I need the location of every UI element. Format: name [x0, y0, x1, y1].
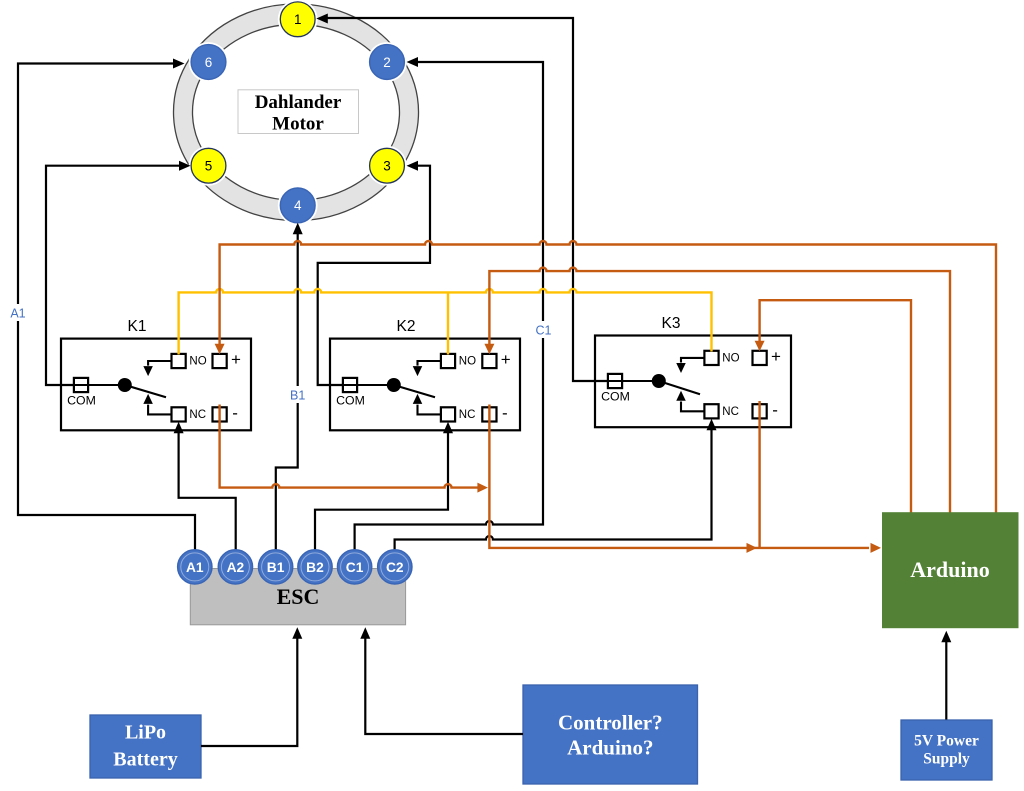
svg-text:B2: B2 — [306, 560, 324, 575]
svg-text:NC: NC — [459, 409, 476, 421]
svg-text:3: 3 — [383, 159, 391, 174]
svg-text:NO: NO — [722, 353, 739, 365]
relay K3 NC terminal — [704, 404, 739, 418]
relay K3 common pole and switch arm — [607, 374, 700, 394]
svg-text:C1: C1 — [346, 560, 364, 575]
ESC terminal A1 — [178, 550, 212, 584]
LiPo Battery box — [90, 715, 201, 778]
Dahlander motor stator ring — [174, 4, 419, 221]
relay K2 NO terminal — [441, 354, 476, 368]
svg-text:-: - — [502, 404, 508, 423]
wire: motor terminal 5 to K1 COM — [46, 161, 191, 385]
svg-text:5V Power: 5V Power — [914, 733, 979, 750]
motor terminal 3 — [367, 146, 407, 186]
relay K1 NC hook arrow — [143, 394, 171, 415]
relay K1 NO hook arrow — [143, 361, 171, 376]
motor terminal 2 — [367, 42, 407, 82]
relay K2 + terminal — [482, 350, 511, 369]
relay K3 + terminal — [753, 347, 782, 366]
svg-text:Controller?: Controller? — [558, 711, 663, 735]
relay K1 - terminal — [213, 404, 238, 423]
ESC terminal B2 — [298, 550, 332, 584]
relay K3 NO terminal — [704, 351, 739, 365]
relay K2 NC terminal — [441, 407, 476, 421]
svg-text:-: - — [772, 401, 778, 420]
relay K2 box — [330, 318, 520, 430]
svg-text:A1: A1 — [186, 560, 204, 575]
orange wire: Arduino to K3 + — [755, 300, 911, 512]
wire: motor terminal 6 to ESC A1 — [18, 59, 195, 551]
svg-text:A1: A1 — [10, 307, 25, 321]
svg-text:6: 6 — [205, 55, 213, 70]
svg-text:Motor: Motor — [272, 113, 324, 134]
svg-text:K2: K2 — [397, 318, 416, 335]
relay K1 COM terminal — [67, 378, 96, 408]
svg-text:NC: NC — [722, 406, 739, 418]
svg-text:5: 5 — [205, 159, 213, 174]
ESC terminal C1 — [337, 550, 371, 584]
Controller box — [523, 685, 698, 784]
wire: 5V Power Supply to Arduino — [941, 631, 951, 720]
label A1 — [6, 304, 29, 321]
svg-text:Battery: Battery — [113, 749, 177, 771]
relay K1 NO terminal — [172, 354, 207, 368]
relay K3 NO hook arrow — [676, 358, 704, 373]
svg-text:4: 4 — [294, 198, 302, 213]
svg-text:COM: COM — [67, 393, 96, 407]
relay K2 NO hook arrow — [413, 361, 441, 376]
orange wire: Arduino to K2 + — [484, 268, 950, 513]
wire: ESC B2 to K2 NC — [315, 422, 453, 551]
relay K3 - terminal — [753, 401, 778, 420]
motor terminal 6 — [189, 42, 229, 82]
wire: K1 NC to ESC A2 — [174, 422, 236, 551]
svg-text:+: + — [231, 350, 241, 369]
ESC box — [190, 569, 405, 625]
svg-text:-: - — [232, 404, 238, 423]
svg-text:2: 2 — [383, 55, 391, 70]
svg-text:NO: NO — [459, 356, 476, 368]
svg-text:+: + — [771, 347, 781, 366]
relay K2 common pole and switch arm — [342, 378, 435, 397]
motor terminal 4 — [278, 186, 318, 226]
svg-text:NO: NO — [189, 356, 206, 368]
Arduino box — [882, 512, 1019, 628]
relay K2 COM terminal — [336, 378, 365, 408]
svg-text:B1: B1 — [267, 560, 285, 575]
svg-text:Dahlander: Dahlander — [255, 92, 342, 113]
svg-text:Arduino?: Arduino? — [567, 736, 653, 760]
wire: motor terminal 4 to ESC B1 (net B1) — [276, 223, 303, 551]
svg-text:ESC: ESC — [277, 584, 320, 609]
svg-text:A2: A2 — [227, 560, 245, 575]
svg-text:C1: C1 — [536, 324, 552, 338]
svg-text:Arduino: Arduino — [910, 557, 989, 582]
wire: Controller to ESC — [360, 627, 523, 734]
svg-text:1: 1 — [294, 12, 302, 27]
wire: motor terminal 3 to K2 COM — [318, 161, 430, 385]
wire: LiPo Battery to ESC — [201, 627, 302, 746]
svg-text:B1: B1 — [290, 389, 305, 403]
wire: motor terminal 1 to K3 COM — [316, 14, 608, 382]
motor terminal 1 — [278, 0, 318, 39]
motor terminal 5 — [189, 146, 229, 186]
relay K1 box — [61, 318, 251, 430]
yellow wire: NO bus K1/K2/K3 — [179, 289, 712, 355]
wire: motor terminal 2 to ESC C1 (net C1) — [355, 57, 543, 551]
5V Power Supply box — [901, 720, 992, 780]
relay K2 NC hook arrow — [413, 394, 441, 415]
relay K1 + terminal — [213, 350, 242, 369]
svg-text:K1: K1 — [128, 318, 147, 335]
svg-text:LiPo: LiPo — [125, 722, 166, 744]
ESC terminal C2 — [378, 550, 412, 584]
svg-text:Supply: Supply — [923, 751, 970, 768]
svg-text:+: + — [501, 350, 511, 369]
relay K3 NC hook arrow — [676, 391, 704, 412]
orange wire: K2 - to Arduino — [489, 405, 881, 553]
relay K3 box — [595, 315, 791, 427]
svg-text:COM: COM — [336, 393, 365, 407]
svg-text:COM: COM — [601, 389, 630, 403]
motor label box — [238, 90, 359, 135]
svg-text:C2: C2 — [386, 560, 404, 575]
orange wire: K1 - join — [220, 405, 488, 493]
wire: ESC C2 to K3 NC — [395, 419, 717, 551]
ESC terminal A2 — [218, 550, 252, 584]
svg-text:K3: K3 — [662, 315, 681, 332]
orange wire: Arduino to K1 + — [215, 241, 996, 513]
label B1 — [286, 386, 309, 403]
orange wire: K3 - join — [758, 401, 760, 548]
relay K3 COM terminal — [601, 374, 630, 404]
relay K1 NC terminal — [172, 407, 207, 421]
relay K1 common pole and switch arm — [73, 378, 166, 397]
svg-text:NC: NC — [189, 409, 206, 421]
relay K2 - terminal — [482, 404, 507, 423]
label C1 — [532, 321, 555, 338]
ESC terminal B1 — [258, 550, 292, 584]
